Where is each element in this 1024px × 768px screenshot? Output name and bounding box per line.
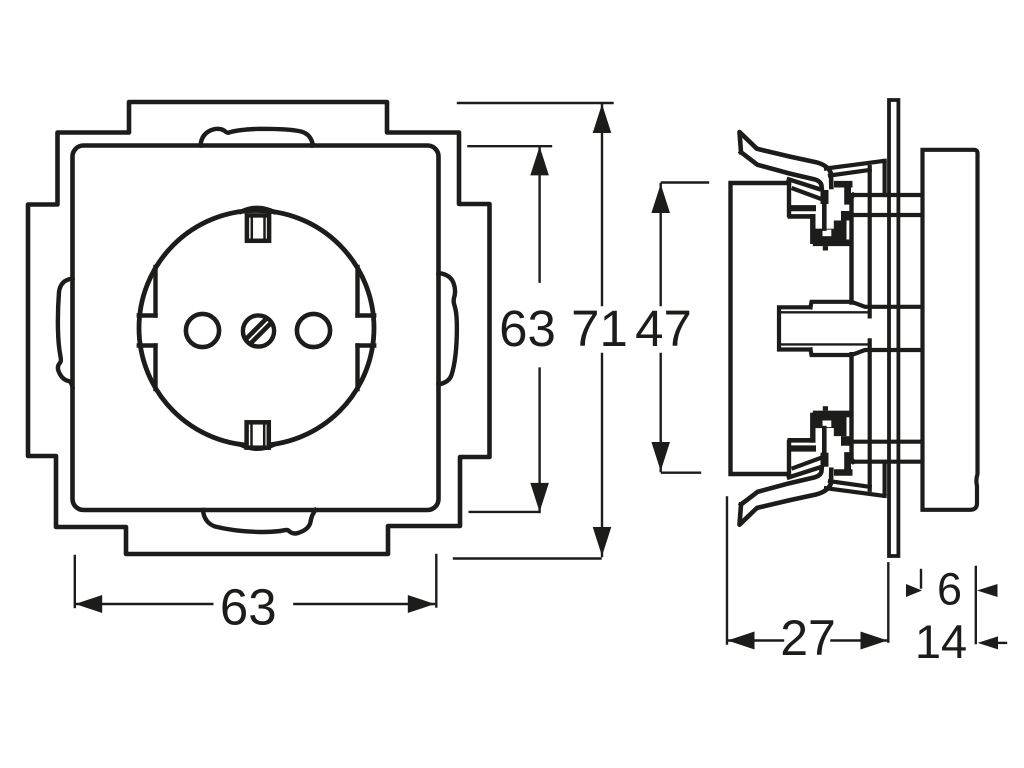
side view: top claw channel lines bbox=[851, 195, 923, 215]
dimension: 47 top arrow bbox=[651, 184, 670, 213]
svg-text:14: 14 bbox=[915, 615, 967, 668]
side view: bottom claw spring strip bbox=[740, 467, 832, 525]
front view: bottom claw screw bump over circle bbox=[241, 445, 274, 449]
side view: pot right edge vertical (lower) bbox=[868, 340, 872, 489]
side view: bottom clamp stub bbox=[823, 406, 828, 410]
side view: bottom clamp arm left edge bbox=[787, 440, 791, 478]
side view: top clamp stub bbox=[823, 246, 828, 250]
front view: support frame outline bbox=[28, 102, 490, 554]
dimension: vertical 63 line bbox=[538, 146, 540, 512]
side view: top clamp top slab bbox=[834, 181, 853, 188]
dimension: vertical 63 extension line bottom bbox=[470, 511, 539, 513]
front view: left edge latch bump bbox=[58, 279, 73, 388]
front view: top claw screw bump over circle bbox=[241, 208, 274, 212]
dimension: 71 bottom arrow bbox=[593, 527, 612, 556]
side view: central tube inner lines bbox=[779, 312, 870, 344]
front view: bottom edge latch bump bbox=[203, 510, 316, 534]
side view: bottom clamp foot-side fill bbox=[834, 415, 847, 436]
front view: right recess flat chord (upper) bbox=[355, 267, 359, 316]
front view: top claw screw window bbox=[247, 215, 269, 240]
dimension: 47 bottom arrow bbox=[651, 442, 670, 471]
side view: top clamp window bbox=[823, 230, 832, 237]
side view: top clamp cross left edge bbox=[822, 202, 827, 231]
side view: top claw spring strip bbox=[740, 132, 832, 190]
dimension: 14 arrow tail bbox=[998, 642, 1006, 644]
side view: top clamp step vertical bbox=[810, 214, 815, 244]
side view: bottom clamp window bbox=[823, 421, 832, 428]
side view: bottom clamp separation wall bbox=[821, 453, 829, 475]
dimension: vertical 63 top arrow bbox=[530, 146, 549, 175]
side view: bottom clamp arm top slant bbox=[787, 467, 821, 478]
front view: left recess flat chord (upper) bbox=[153, 267, 157, 316]
dimension: bottom 63 left arrow bbox=[75, 595, 102, 613]
side view: top clamp arm bar1 bbox=[791, 205, 816, 211]
side view: bottom clamp white cross bbox=[824, 428, 851, 469]
front view: left recess flat chord (lower) bbox=[153, 346, 157, 390]
dimension: vertical 63 extension line top bbox=[469, 145, 552, 147]
front view: left earth-clip notch top line bbox=[139, 313, 156, 317]
side view: top clamp lower block fill bbox=[816, 229, 847, 243]
dimension: 27 line bbox=[728, 639, 888, 641]
side view: bottom clamp right wall fill bbox=[844, 452, 851, 472]
side view: top clamp right wall fill bbox=[844, 186, 851, 206]
front view: right earth-clip notch bottom line bbox=[358, 343, 375, 347]
side view: bottom clamp arm bar2 bbox=[788, 438, 816, 443]
dimension: 71 extension line bottom bbox=[454, 557, 601, 559]
side view: top clamp arm top slant bbox=[787, 179, 821, 190]
dimension: 27 extension line left bbox=[726, 497, 728, 643]
side view: top flange block chamfer and vertical bbox=[850, 195, 853, 303]
side view: top clamp under-notch fill bbox=[841, 211, 854, 221]
dimension: 6 right arrow bbox=[977, 584, 998, 597]
dimension: bottom 63 line bbox=[76, 603, 434, 605]
dimension: vertical 63 bottom arrow bbox=[530, 483, 549, 512]
side view: pot right edge vertical (upper) bbox=[868, 167, 872, 316]
side view: support frame plate (edge-on) bbox=[889, 100, 898, 556]
front view: left earth-clip notch bottom line bbox=[139, 343, 156, 347]
side view: bottom claw anchor wedge bbox=[826, 462, 885, 496]
dimension: 47 extension line bottom bbox=[662, 472, 700, 474]
dimension: 14 arrow bbox=[978, 636, 998, 649]
side view: bottom clamp lower block fill bbox=[816, 414, 847, 428]
dimension: 14 extension line right bbox=[975, 567, 977, 643]
side view: bottom claw channel lines bbox=[851, 442, 923, 462]
side view: bottom clamp cross left edge bbox=[822, 426, 827, 455]
side view: top clamp foot-side fill bbox=[834, 220, 847, 241]
side view: top clamp arm left edge bbox=[787, 179, 791, 217]
svg-text:47: 47 bbox=[635, 300, 692, 357]
dimension: 47 extension line top bbox=[662, 181, 708, 183]
side view: insert body left edge and top/bottom edges bbox=[731, 183, 790, 474]
side view: bottom flange block chamfer and vertical bbox=[850, 354, 853, 462]
side view: top claw anchor wedge bbox=[826, 161, 885, 195]
dimension: 27 right arrow bbox=[861, 632, 888, 650]
front view: cover plate (rounded square 63x63) bbox=[73, 146, 439, 511]
svg-text:63: 63 bbox=[220, 579, 277, 636]
front view: right earth-clip notch top line bbox=[358, 313, 375, 317]
front view: bottom claw screw window bbox=[247, 422, 269, 447]
svg-text:71: 71 bbox=[571, 300, 628, 357]
front view: left pin hole bbox=[186, 314, 219, 347]
side view: central earth pocket tube bbox=[779, 302, 922, 355]
side view: bottom clamp top slab bbox=[834, 469, 853, 476]
dimension: bottom 63 extension line right bbox=[435, 555, 437, 607]
dimension: bottom 63 right arrow bbox=[408, 595, 435, 613]
dimension: 47 line bbox=[660, 184, 662, 471]
svg-text:63: 63 bbox=[499, 300, 556, 357]
side view: top clamp separation wall bbox=[821, 182, 829, 204]
dimension: 71 extension line top bbox=[458, 102, 613, 104]
dimension: 6 extension tick left bbox=[920, 570, 922, 588]
side view: bottom clamp arm inner slant bbox=[792, 455, 829, 469]
dimension: 71 top arrow bbox=[593, 104, 612, 133]
front view: top edge latch bump bbox=[201, 129, 314, 146]
side view: top clamp bottom bar bbox=[813, 240, 852, 247]
side view: bottom clamp bottom bar bbox=[813, 411, 852, 418]
front view: socket recess circle bbox=[139, 211, 374, 446]
side view: cover plate (edge-on) bbox=[923, 150, 978, 510]
dimension: bottom 63 extension line left bbox=[74, 556, 76, 607]
side view: top clamp arm bar2 bbox=[788, 214, 816, 219]
dimension: 71 line bbox=[601, 104, 603, 556]
dimension: 27 extension line right bbox=[887, 563, 889, 641]
side view: top clamp white cross bbox=[824, 188, 851, 229]
svg-text:6: 6 bbox=[937, 564, 962, 615]
dimension: 27 left arrow bbox=[728, 632, 755, 650]
side view: top clamp arm inner slant bbox=[792, 188, 829, 202]
front view: center screw with diagonal slot bbox=[243, 315, 274, 346]
front view: right edge latch bump bbox=[439, 273, 457, 385]
side view: bottom clamp arm bar1 bbox=[791, 445, 816, 451]
dimension: 6 left arrow bbox=[906, 584, 922, 597]
svg-text:27: 27 bbox=[780, 610, 836, 666]
side view: bottom clamp step vertical bbox=[810, 413, 815, 443]
front view: right recess flat chord (lower) bbox=[355, 346, 359, 390]
side view: bottom clamp under-notch fill bbox=[841, 436, 854, 446]
front view: right pin hole bbox=[297, 314, 330, 347]
